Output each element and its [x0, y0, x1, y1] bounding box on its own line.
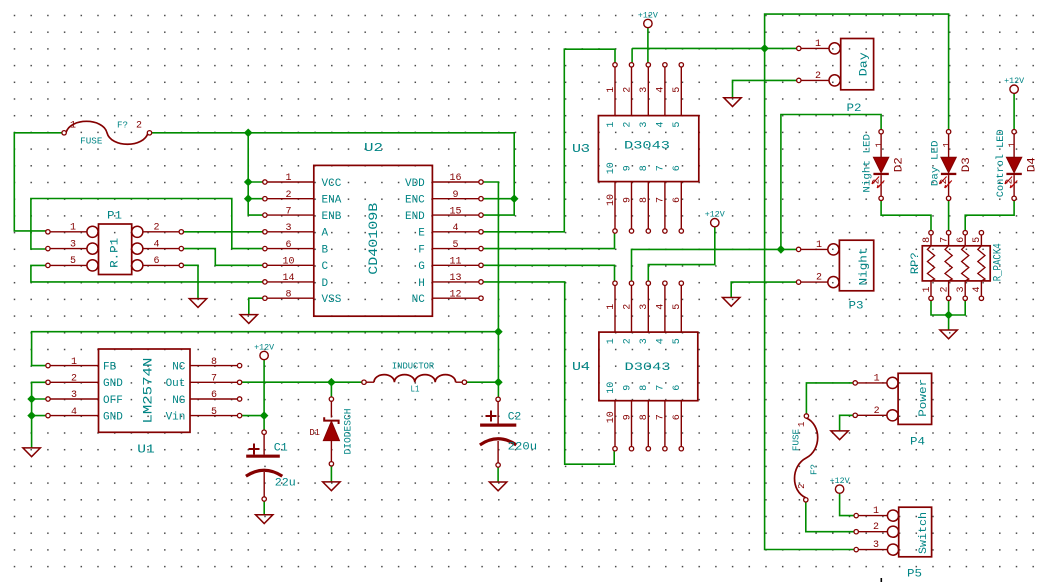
svg-text:2: 2	[285, 190, 291, 201]
svg-text:NC: NC	[412, 294, 426, 306]
svg-text:END: END	[405, 211, 425, 223]
svg-text:1: 1	[606, 122, 617, 128]
svg-text:RP?: RP?	[910, 252, 922, 274]
svg-text:10: 10	[606, 162, 617, 174]
svg-text:2: 2	[816, 273, 822, 284]
svg-text:1: 1	[874, 142, 884, 147]
svg-text:8: 8	[639, 385, 650, 391]
svg-text:6: 6	[672, 385, 683, 391]
svg-text:2: 2	[136, 121, 142, 132]
svg-text:ENB: ENB	[322, 211, 342, 223]
svg-text:1: 1	[71, 357, 77, 368]
svg-text:VSS: VSS	[322, 294, 342, 306]
svg-text:+12V: +12V	[254, 342, 275, 352]
svg-text:Day: Day	[858, 52, 870, 76]
svg-text:3: 3	[71, 390, 77, 401]
svg-text:6: 6	[285, 240, 291, 251]
svg-text:4: 4	[452, 223, 458, 234]
svg-text:F?: F?	[810, 464, 820, 475]
svg-text:1: 1	[1007, 142, 1017, 147]
svg-text:4: 4	[972, 286, 983, 292]
svg-text:4: 4	[656, 122, 667, 128]
svg-text:6: 6	[672, 414, 683, 420]
svg-text:1: 1	[942, 142, 952, 147]
svg-text:FB: FB	[103, 362, 117, 374]
svg-text:2: 2	[622, 338, 633, 344]
svg-text:16: 16	[449, 173, 461, 184]
svg-text:1: 1	[70, 121, 76, 132]
svg-text:8: 8	[639, 197, 650, 203]
svg-text:11: 11	[449, 257, 461, 268]
svg-text:10: 10	[606, 194, 617, 206]
svg-text:5: 5	[211, 407, 217, 418]
svg-text:B: B	[322, 245, 329, 257]
svg-text:U2: U2	[364, 141, 383, 155]
svg-text:+12V: +12V	[1004, 76, 1025, 86]
svg-text:6: 6	[672, 197, 683, 203]
svg-text:Vin: Vin	[166, 412, 186, 424]
svg-text:R.P1: R.P1	[110, 237, 122, 267]
svg-text:C1: C1	[274, 443, 288, 455]
svg-text:1: 1	[874, 373, 880, 384]
svg-text:2: 2	[622, 87, 633, 93]
svg-text:1: 1	[815, 39, 821, 50]
svg-text:2: 2	[622, 304, 633, 310]
svg-text:4: 4	[153, 239, 159, 250]
svg-text:7: 7	[939, 237, 950, 243]
svg-text:U1: U1	[137, 443, 155, 457]
svg-text:1: 1	[606, 304, 617, 310]
svg-text:7: 7	[656, 165, 667, 171]
svg-text:10: 10	[282, 257, 294, 268]
svg-text:1: 1	[873, 506, 879, 517]
svg-text:220u: 220u	[508, 442, 537, 454]
svg-text:NG: NG	[172, 395, 185, 407]
svg-text:6: 6	[956, 237, 967, 243]
svg-text:1: 1	[922, 286, 933, 292]
svg-text:5: 5	[70, 256, 76, 267]
svg-text:L1: L1	[411, 384, 420, 394]
svg-text:D4: D4	[1027, 157, 1039, 172]
svg-text:3: 3	[639, 304, 650, 310]
svg-text:2: 2	[874, 406, 880, 417]
svg-text:Power: Power	[918, 379, 930, 417]
svg-text:D3043: D3043	[624, 141, 670, 153]
svg-text:E: E	[418, 228, 425, 240]
svg-text:4: 4	[656, 87, 667, 93]
svg-text:+12V: +12V	[638, 10, 659, 20]
svg-text:8: 8	[211, 357, 217, 368]
svg-text:ENA: ENA	[322, 195, 342, 207]
svg-text:7: 7	[656, 385, 667, 391]
svg-text:15: 15	[449, 206, 461, 217]
svg-text:VCC: VCC	[322, 178, 342, 190]
svg-text:G: G	[418, 261, 425, 273]
svg-text:2: 2	[71, 374, 77, 385]
svg-text:U3: U3	[572, 142, 590, 156]
svg-text:P1: P1	[107, 210, 122, 222]
svg-text:3: 3	[639, 338, 650, 344]
svg-text:D3: D3	[961, 157, 973, 172]
svg-text:10: 10	[606, 382, 617, 394]
svg-text:9: 9	[452, 190, 458, 201]
svg-text:CD40109B: CD40109B	[366, 203, 381, 275]
svg-text:6: 6	[211, 390, 217, 401]
svg-text:8: 8	[285, 289, 291, 300]
svg-text:P3: P3	[849, 301, 864, 313]
svg-text:F?: F?	[117, 120, 128, 130]
svg-text:+12V: +12V	[705, 210, 726, 220]
svg-text:2: 2	[873, 522, 879, 533]
svg-text:ENC: ENC	[405, 195, 425, 207]
svg-text:D1: D1	[309, 428, 320, 438]
svg-text:5: 5	[672, 122, 683, 128]
svg-text:Control LED: Control LED	[995, 129, 1007, 197]
svg-text:Night LED: Night LED	[862, 134, 874, 193]
svg-text:+12V: +12V	[830, 476, 851, 486]
svg-text:9: 9	[622, 165, 633, 171]
svg-text:A: A	[322, 228, 329, 240]
svg-text:22u: 22u	[275, 478, 296, 490]
svg-text:1: 1	[797, 422, 807, 427]
svg-text:3: 3	[285, 223, 291, 234]
svg-text:5: 5	[972, 237, 983, 243]
svg-text:7: 7	[656, 197, 667, 203]
svg-text:3: 3	[70, 239, 76, 250]
svg-text:1: 1	[606, 338, 617, 344]
svg-text:2: 2	[622, 122, 633, 128]
svg-text:2: 2	[815, 71, 821, 82]
svg-text:8: 8	[922, 237, 933, 243]
svg-text:P5: P5	[907, 568, 922, 580]
svg-text:Switch: Switch	[918, 512, 930, 554]
svg-text:INDUCTOR: INDUCTOR	[392, 362, 435, 372]
svg-text:F: F	[418, 245, 425, 257]
svg-text:C2: C2	[508, 411, 522, 423]
svg-text:14: 14	[282, 273, 294, 284]
svg-text:6: 6	[153, 256, 159, 267]
svg-text:Night: Night	[859, 248, 871, 286]
svg-text:2: 2	[939, 286, 950, 292]
svg-text:H: H	[418, 278, 425, 290]
svg-text:8: 8	[639, 165, 650, 171]
svg-text:7: 7	[656, 414, 667, 420]
svg-text:1: 1	[816, 240, 822, 251]
svg-text:3: 3	[873, 540, 879, 551]
svg-text:GND: GND	[103, 412, 123, 424]
svg-text:P4: P4	[910, 436, 925, 448]
svg-text:Day LED: Day LED	[930, 141, 941, 187]
svg-text:8: 8	[639, 414, 650, 420]
svg-text:OFF: OFF	[103, 395, 123, 407]
svg-text:9: 9	[622, 197, 633, 203]
svg-text:C: C	[322, 261, 329, 273]
svg-text:P2: P2	[847, 103, 862, 115]
svg-text:7: 7	[285, 206, 291, 217]
svg-text:GND: GND	[103, 378, 123, 390]
svg-text:FUSE: FUSE	[80, 137, 102, 147]
svg-text:1: 1	[606, 87, 617, 93]
svg-text:12: 12	[449, 289, 461, 300]
svg-text:7: 7	[211, 374, 217, 385]
svg-text:1: 1	[70, 223, 76, 234]
svg-text:4: 4	[656, 304, 667, 310]
svg-text:DIODESCH: DIODESCH	[344, 409, 355, 455]
svg-text:U4: U4	[572, 360, 590, 374]
svg-text:9: 9	[622, 414, 633, 420]
svg-text:2: 2	[153, 223, 159, 234]
svg-text:4: 4	[656, 338, 667, 344]
svg-text:Out: Out	[166, 378, 186, 390]
svg-text:5: 5	[452, 240, 458, 251]
svg-text:VDD: VDD	[405, 178, 425, 190]
svg-text:D: D	[322, 278, 329, 290]
svg-text:R_PACK4: R_PACK4	[993, 243, 1005, 281]
svg-text:10: 10	[606, 411, 617, 423]
svg-text:D2: D2	[894, 157, 906, 172]
svg-text:5: 5	[672, 338, 683, 344]
svg-text:3: 3	[639, 122, 650, 128]
svg-text:NC: NC	[172, 362, 186, 374]
svg-text:9: 9	[622, 385, 633, 391]
svg-text:FUSE: FUSE	[792, 429, 802, 451]
svg-text:3: 3	[956, 286, 967, 292]
svg-text:6: 6	[672, 165, 683, 171]
svg-text:D3043: D3043	[625, 362, 671, 374]
svg-text:LM2574N: LM2574N	[141, 358, 156, 424]
svg-text:13: 13	[449, 273, 461, 284]
svg-text:5: 5	[672, 87, 683, 93]
svg-text:2: 2	[797, 483, 807, 488]
svg-text:3: 3	[639, 87, 650, 93]
svg-text:1: 1	[285, 173, 291, 184]
svg-text:5: 5	[672, 304, 683, 310]
svg-text:4: 4	[71, 407, 77, 418]
